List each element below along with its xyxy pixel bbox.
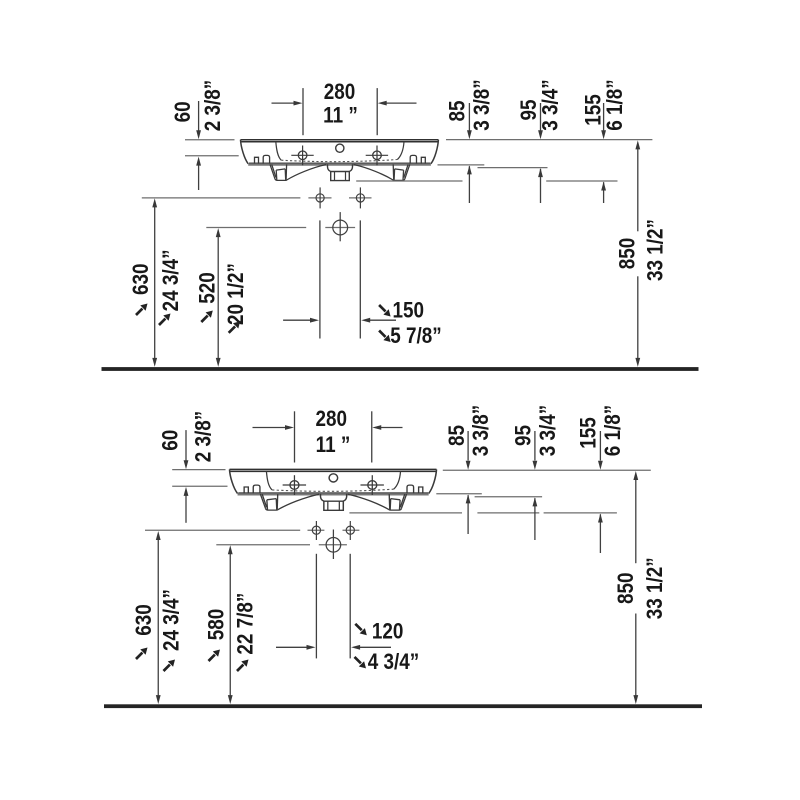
155 / drain-bottom reference line (top) — [356, 180, 617, 182]
svg-text:3 3/4”: 3 3/4” — [535, 405, 560, 456]
dimension 280 right arrow (bottom) — [380, 427, 403, 429]
svg-text:280: 280 — [324, 79, 356, 104]
faucet-hole-level extension line left (top) — [185, 155, 239, 157]
svg-text:630: 630 — [128, 263, 153, 295]
svg-text:3 3/8”: 3 3/8” — [470, 79, 495, 130]
rim-top extension line right (bottom) — [443, 469, 651, 471]
dimension 155 line (top) — [603, 103, 605, 131]
pointer arrow of 580 (bottom) — [209, 650, 221, 662]
pointer arrow of 5 7/8 (top) — [379, 331, 391, 343]
pointer arrow of 630 (bottom) — [136, 648, 148, 660]
dimension 150 left arrow (top) — [283, 319, 311, 321]
85 reference line (bottom) — [436, 493, 482, 495]
dimension 95 line (bottom) — [534, 431, 536, 461]
svg-text:520: 520 — [195, 272, 220, 304]
svg-text:33 1/2”: 33 1/2” — [643, 219, 668, 281]
svg-text:22 7/8”: 22 7/8” — [233, 593, 258, 655]
svg-text:85: 85 — [444, 425, 469, 446]
pointer arrow of 20 1/2 (top) — [229, 321, 241, 333]
svg-text:2 3/8”: 2 3/8” — [191, 411, 216, 462]
dimension 520 line (top) — [217, 236, 219, 360]
dimension 850 line (top) — [637, 148, 639, 360]
svg-text:6 1/8”: 6 1/8” — [600, 405, 625, 456]
85 reference line (top) — [438, 164, 485, 166]
pointer arrow of 4 3/4 (bottom) — [355, 657, 367, 669]
svg-text:850: 850 — [614, 573, 639, 605]
pointer arrow of 150 (top) — [379, 305, 391, 317]
dimension 120 left arrow (bottom) — [276, 646, 308, 648]
dimension 60 line (top) — [198, 101, 200, 190]
svg-text:95: 95 — [511, 425, 536, 446]
svg-text:630: 630 — [132, 604, 157, 636]
95 reference line (top) — [478, 167, 548, 169]
dimension 150 extension lines (top) — [320, 220, 360, 338]
dimension 120 extension lines (bottom) — [316, 554, 350, 659]
svg-text:24 3/4”: 24 3/4” — [159, 589, 184, 651]
dimension 280 extension lines (top) — [303, 88, 377, 135]
washbasin drawing (top) — [241, 140, 439, 181]
rim-top extension line left (top) — [185, 139, 235, 141]
svg-text:120: 120 — [372, 619, 404, 644]
right fixing bolt crosshair (top) — [356, 187, 364, 208]
pointer arrow of 520 (top) — [201, 311, 213, 323]
faucet-hole-level extension line left (bottom) — [172, 485, 227, 487]
dimension 120 right arrow (bottom) — [359, 646, 391, 648]
svg-text:33 1/2”: 33 1/2” — [643, 557, 668, 619]
pointer arrow of 24 3/4 (bottom) — [164, 660, 176, 672]
svg-text:155: 155 — [576, 417, 601, 449]
rim-top extension line left (bottom) — [172, 469, 225, 471]
dimension 85 line (top) — [468, 103, 470, 131]
dimension 85 line (bottom) — [467, 431, 469, 461]
svg-text:20 1/2”: 20 1/2” — [223, 263, 248, 325]
dimension 280 right arrow (top) — [385, 102, 417, 104]
svg-text:24 3/4”: 24 3/4” — [159, 249, 184, 311]
dimension 630 line (top) — [154, 206, 156, 360]
siphon outlet crosshair (bottom) — [326, 530, 341, 560]
right fixing bolt crosshair (bottom) — [346, 521, 354, 540]
dimension 280 extension lines (bottom) — [295, 411, 372, 462]
dimension 280 left arrow (top) — [272, 102, 296, 104]
svg-text:4 3/4”: 4 3/4” — [368, 650, 419, 675]
svg-text:580: 580 — [204, 609, 229, 641]
svg-text:60: 60 — [171, 101, 196, 122]
svg-text:60: 60 — [158, 430, 183, 451]
dimension 155 line (bottom) — [599, 431, 601, 461]
svg-text:11 ”: 11 ” — [323, 103, 358, 128]
svg-text:280: 280 — [315, 407, 347, 432]
siphon centre line 580 (bottom) — [216, 544, 347, 546]
dimension 850 line (bottom) — [635, 479, 637, 697]
svg-text:5 7/8”: 5 7/8” — [390, 324, 441, 349]
rim-top extension line right (top) — [446, 139, 652, 141]
left fixing bolt crosshair (bottom) — [312, 521, 320, 540]
svg-text:85: 85 — [445, 100, 470, 121]
floor line (top) — [102, 367, 699, 371]
pointer arrow of 120 (bottom) — [355, 624, 367, 636]
washbasin drawing (bottom, slightly wider variant) — [229, 469, 436, 510]
fixing bolt centre line (bottom) — [145, 529, 359, 531]
pointer arrow of 24 3/4 (top) — [159, 314, 171, 326]
155 / drain-bottom reference line (bottom) — [349, 512, 617, 514]
svg-text:3 3/4”: 3 3/4” — [538, 79, 563, 130]
left fixing bolt crosshair (top) — [316, 187, 324, 208]
dimension 630 line (bottom) — [157, 539, 159, 697]
svg-text:150: 150 — [393, 298, 425, 323]
svg-text:850: 850 — [615, 238, 640, 270]
95 reference line (bottom) — [475, 496, 542, 498]
dimension 95 line (top) — [540, 103, 542, 131]
dimension 60 line (bottom) — [185, 430, 187, 523]
siphon outlet crosshair (top) — [333, 212, 348, 241]
fixing bolt centre line (top) — [142, 197, 372, 199]
dimension 150 right arrow (top) — [369, 319, 396, 321]
pointer arrow of 22 7/8 (bottom) — [237, 660, 249, 672]
dimension 580 line (bottom) — [229, 553, 231, 697]
pointer arrow of 630 (top) — [136, 304, 148, 316]
siphon centre line 520 (top) — [206, 227, 355, 229]
svg-text:11 ”: 11 ” — [316, 432, 351, 457]
svg-text:2 3/8”: 2 3/8” — [201, 80, 226, 131]
dimension 280 left arrow (bottom) — [253, 427, 287, 429]
floor line (bottom) — [104, 704, 702, 708]
svg-text:6 1/8”: 6 1/8” — [603, 79, 628, 130]
svg-text:3 3/8”: 3 3/8” — [469, 405, 494, 456]
